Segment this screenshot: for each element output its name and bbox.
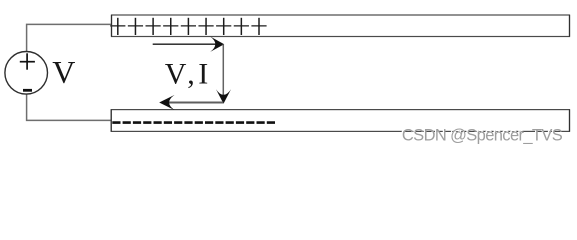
bottom conductor bar — [111, 110, 569, 132]
bar edge accents — [111, 15, 569, 131]
svg-text:,: , — [187, 58, 195, 91]
svg-text:CSDN @Spencer_TVS: CSDN @Spencer_TVS — [402, 127, 563, 145]
watermark CSDN @Spencer_TVS — [401, 125, 563, 145]
svg-text:V: V — [165, 58, 187, 91]
top conductor bar — [112, 15, 570, 37]
minus sign inside source — [23, 89, 32, 92]
voltage source V1 circle — [5, 52, 48, 95]
wire from source bottom to bottom bar — [27, 94, 112, 120]
negative charges row in bottom bar — [112, 121, 275, 124]
plus sign inside source — [20, 53, 35, 69]
positive charges row in top bar — [110, 18, 267, 35]
return arrow left (bottom) — [159, 95, 223, 110]
label V,I — [165, 58, 208, 91]
svg-text:V: V — [52, 54, 75, 90]
wire from source top to top bar — [27, 24, 112, 51]
vertical arrow segment down — [216, 44, 231, 104]
svg-text:I: I — [198, 58, 208, 91]
current arrow right (top) — [153, 37, 225, 52]
